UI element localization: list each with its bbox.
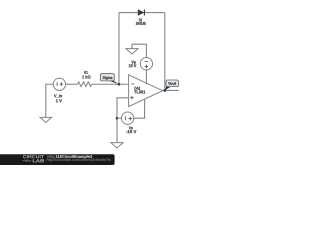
label Vout <box>168 82 176 85</box>
label V_in <box>54 94 62 98</box>
ground above Vp <box>131 44 133 48</box>
wire feedback top <box>119 12 165 14</box>
op-amp OA2 triangle <box>129 75 163 107</box>
label wm LAB <box>33 159 44 162</box>
wire V_in left and down <box>46 84 54 117</box>
label -15 V <box>126 130 136 133</box>
label D1 <box>139 18 142 21</box>
label 1 kOhm <box>82 75 90 78</box>
wire R1 to op-amp inverting input <box>92 83 129 85</box>
label Vp <box>131 61 135 65</box>
node junction Vn tap <box>116 117 119 120</box>
wire ground to Vp top <box>132 44 146 58</box>
voltage source Vn <box>121 112 133 124</box>
label 1 V <box>56 99 62 102</box>
wire junction to Vn <box>117 117 122 119</box>
diode D1 <box>138 10 144 16</box>
label 1N4148 <box>136 22 146 25</box>
wire V_in to R1 <box>65 83 77 85</box>
node junction Sigma <box>118 83 121 86</box>
wire op-amp + input left and down to ground <box>117 98 129 143</box>
flag Sigma pointer <box>109 81 119 84</box>
label TL081 <box>134 90 145 93</box>
resistor R1 <box>78 82 92 87</box>
label Sigma <box>103 76 113 80</box>
flag Vout box <box>166 80 178 87</box>
flag Sigma box <box>100 74 114 81</box>
watermark bar <box>0 154 115 165</box>
label OA2 <box>134 87 140 90</box>
label wm CIRCUIT <box>23 155 44 158</box>
wire Vn to V- supply pin <box>134 99 145 118</box>
voltage source V_in <box>53 78 65 90</box>
flag Vout pointer <box>165 86 171 90</box>
voltage source Vp <box>140 58 152 70</box>
watermark logo zigzag <box>23 160 31 162</box>
node junction Vout <box>164 89 167 92</box>
ground below + input <box>111 143 123 148</box>
wire op-amp output <box>162 89 179 91</box>
ground under V_in <box>40 117 52 122</box>
wire Vp to V+ supply pin <box>145 70 147 85</box>
label wm Editing <box>47 155 54 158</box>
wire feedback right vertical down to Vout <box>164 13 166 91</box>
label wm url <box>47 158 111 161</box>
label 15 V <box>129 64 136 67</box>
label Vn <box>129 126 133 129</box>
label R1 <box>84 71 87 74</box>
label wm name <box>56 155 92 158</box>
wire feedback vertical <box>118 13 120 85</box>
